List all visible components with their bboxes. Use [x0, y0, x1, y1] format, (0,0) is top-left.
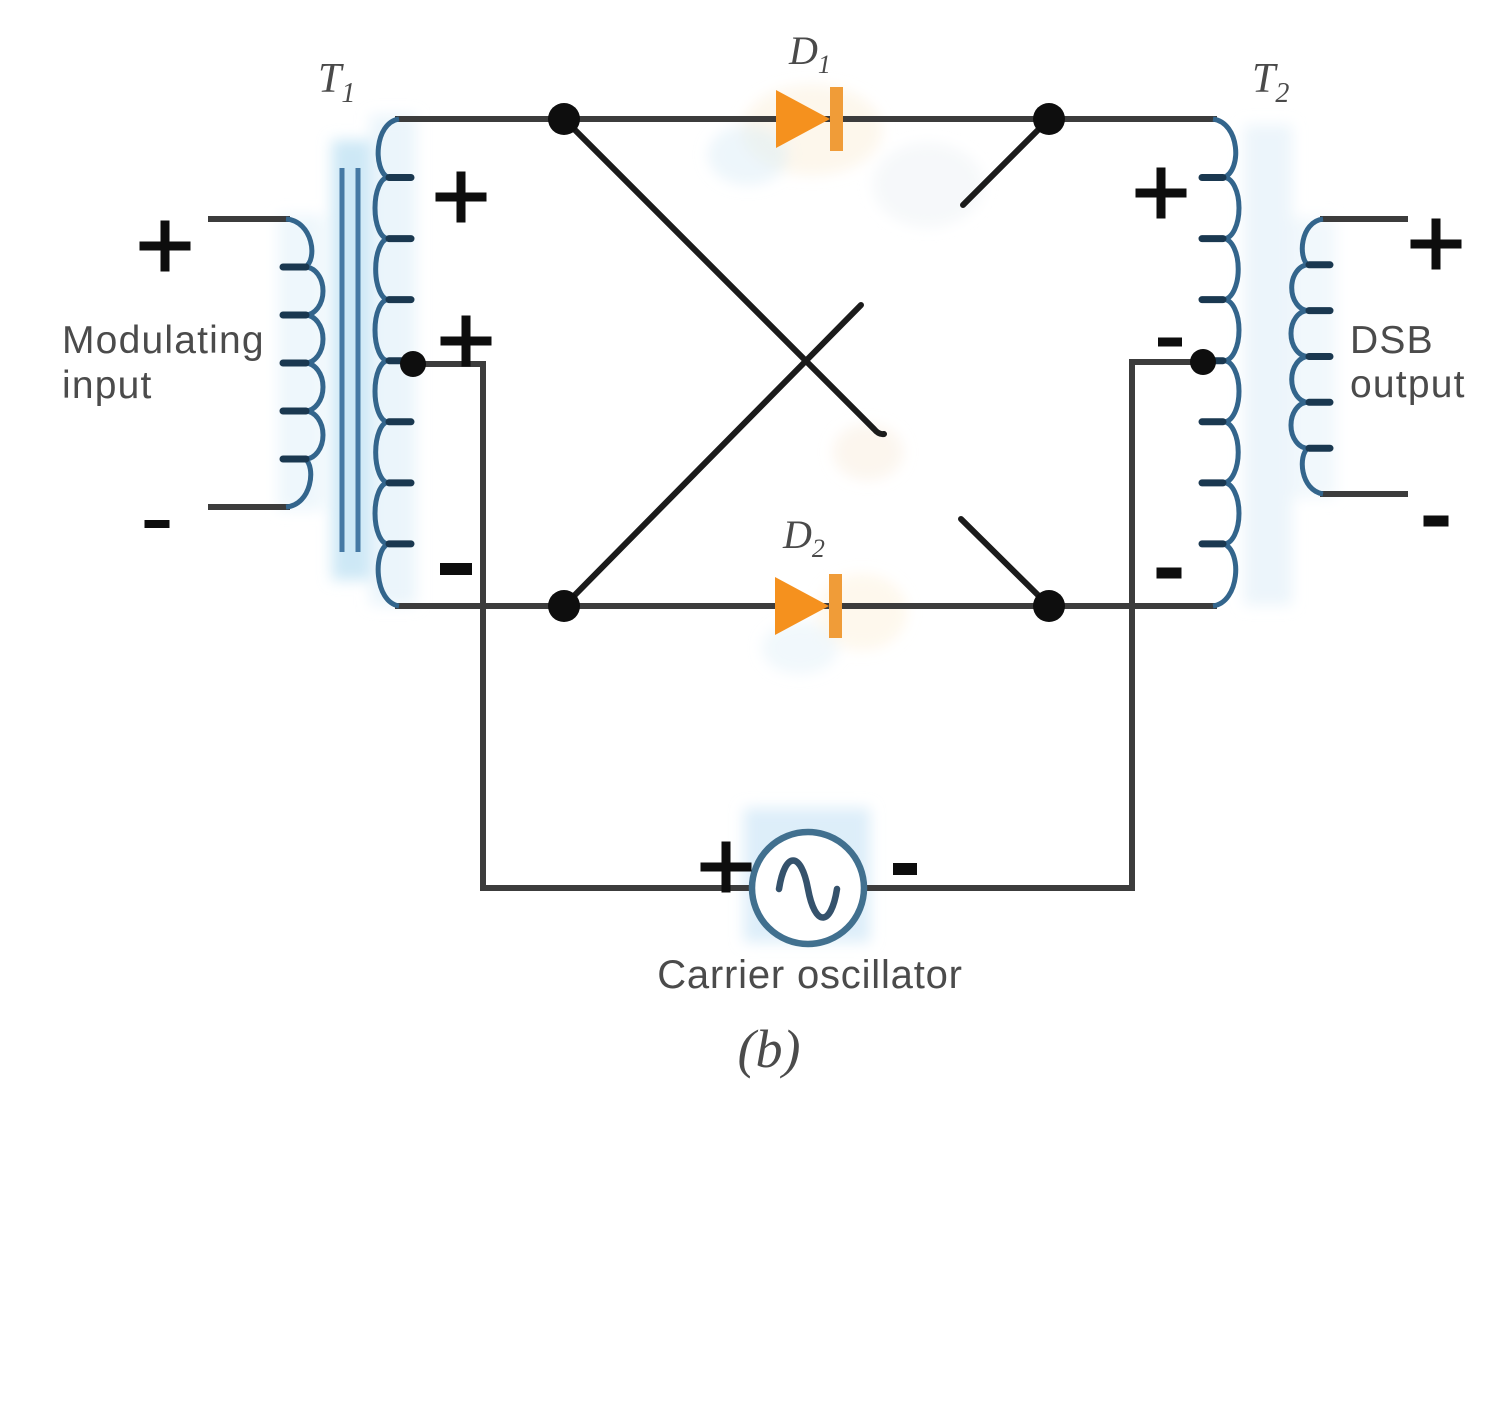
svg-text:Carrier oscillator: Carrier oscillator: [657, 953, 963, 997]
wire DSB output + stub: [1320, 216, 1408, 222]
transformer T1 secondary winding: [375, 119, 399, 606]
wire T1 centre tap to carrier: [413, 364, 752, 888]
carrier oscillator U1: [752, 832, 864, 944]
wire modulating input + stub: [208, 216, 290, 222]
wire switch arm at bottom-right node: [961, 519, 1045, 602]
svg-text:DSB: DSB: [1350, 319, 1434, 362]
plus T1 secondary top: [436, 172, 487, 223]
plus T2 primary top: [1136, 168, 1187, 219]
svg-text:input: input: [62, 364, 153, 407]
wire top rail: [395, 116, 1217, 122]
transformer T2 primary winding: [1213, 119, 1239, 606]
transformer T2 secondary winding: [1291, 219, 1323, 494]
minus T2 primary bottom: [1157, 568, 1182, 579]
wire diagonal from top-left node (D4 arm): [564, 119, 884, 434]
transformer T1 primary winding: [286, 219, 323, 507]
minus T2 centre tap: [1158, 338, 1182, 347]
minus modulating input: [145, 520, 170, 528]
minus DSB output: [1424, 516, 1449, 527]
svg-text:Modulating: Modulating: [62, 319, 265, 362]
plus DSB output: [1411, 219, 1462, 270]
wire T2 centre tap to carrier: [864, 362, 1203, 888]
node bottom-right junction: [1033, 590, 1065, 622]
node top-left junction: [548, 103, 580, 135]
plus carrier oscillator: [701, 842, 752, 893]
minus T1 secondary bottom: [440, 563, 472, 575]
svg-text:(b): (b): [738, 1019, 801, 1079]
wire switch arm at top-right node: [963, 123, 1045, 205]
node T2 centre tap: [1190, 349, 1216, 375]
diode D1: [776, 90, 830, 148]
node T1 centre tap: [400, 351, 426, 377]
wire DSB output - stub: [1320, 491, 1408, 497]
plus modulating input: [140, 221, 191, 272]
minus carrier oscillator: [893, 863, 917, 875]
wire diagonal from bottom-left node (D3 arm): [564, 305, 861, 606]
node bottom-left junction: [548, 590, 580, 622]
svg-text:output: output: [1350, 363, 1466, 406]
transformer T1 core: [342, 168, 358, 552]
node top-right junction: [1033, 103, 1065, 135]
wire bottom rail: [395, 603, 1217, 609]
diode D2: [775, 577, 829, 635]
plus T1 centre tap: [441, 316, 492, 367]
wire modulating input - stub: [208, 504, 290, 510]
